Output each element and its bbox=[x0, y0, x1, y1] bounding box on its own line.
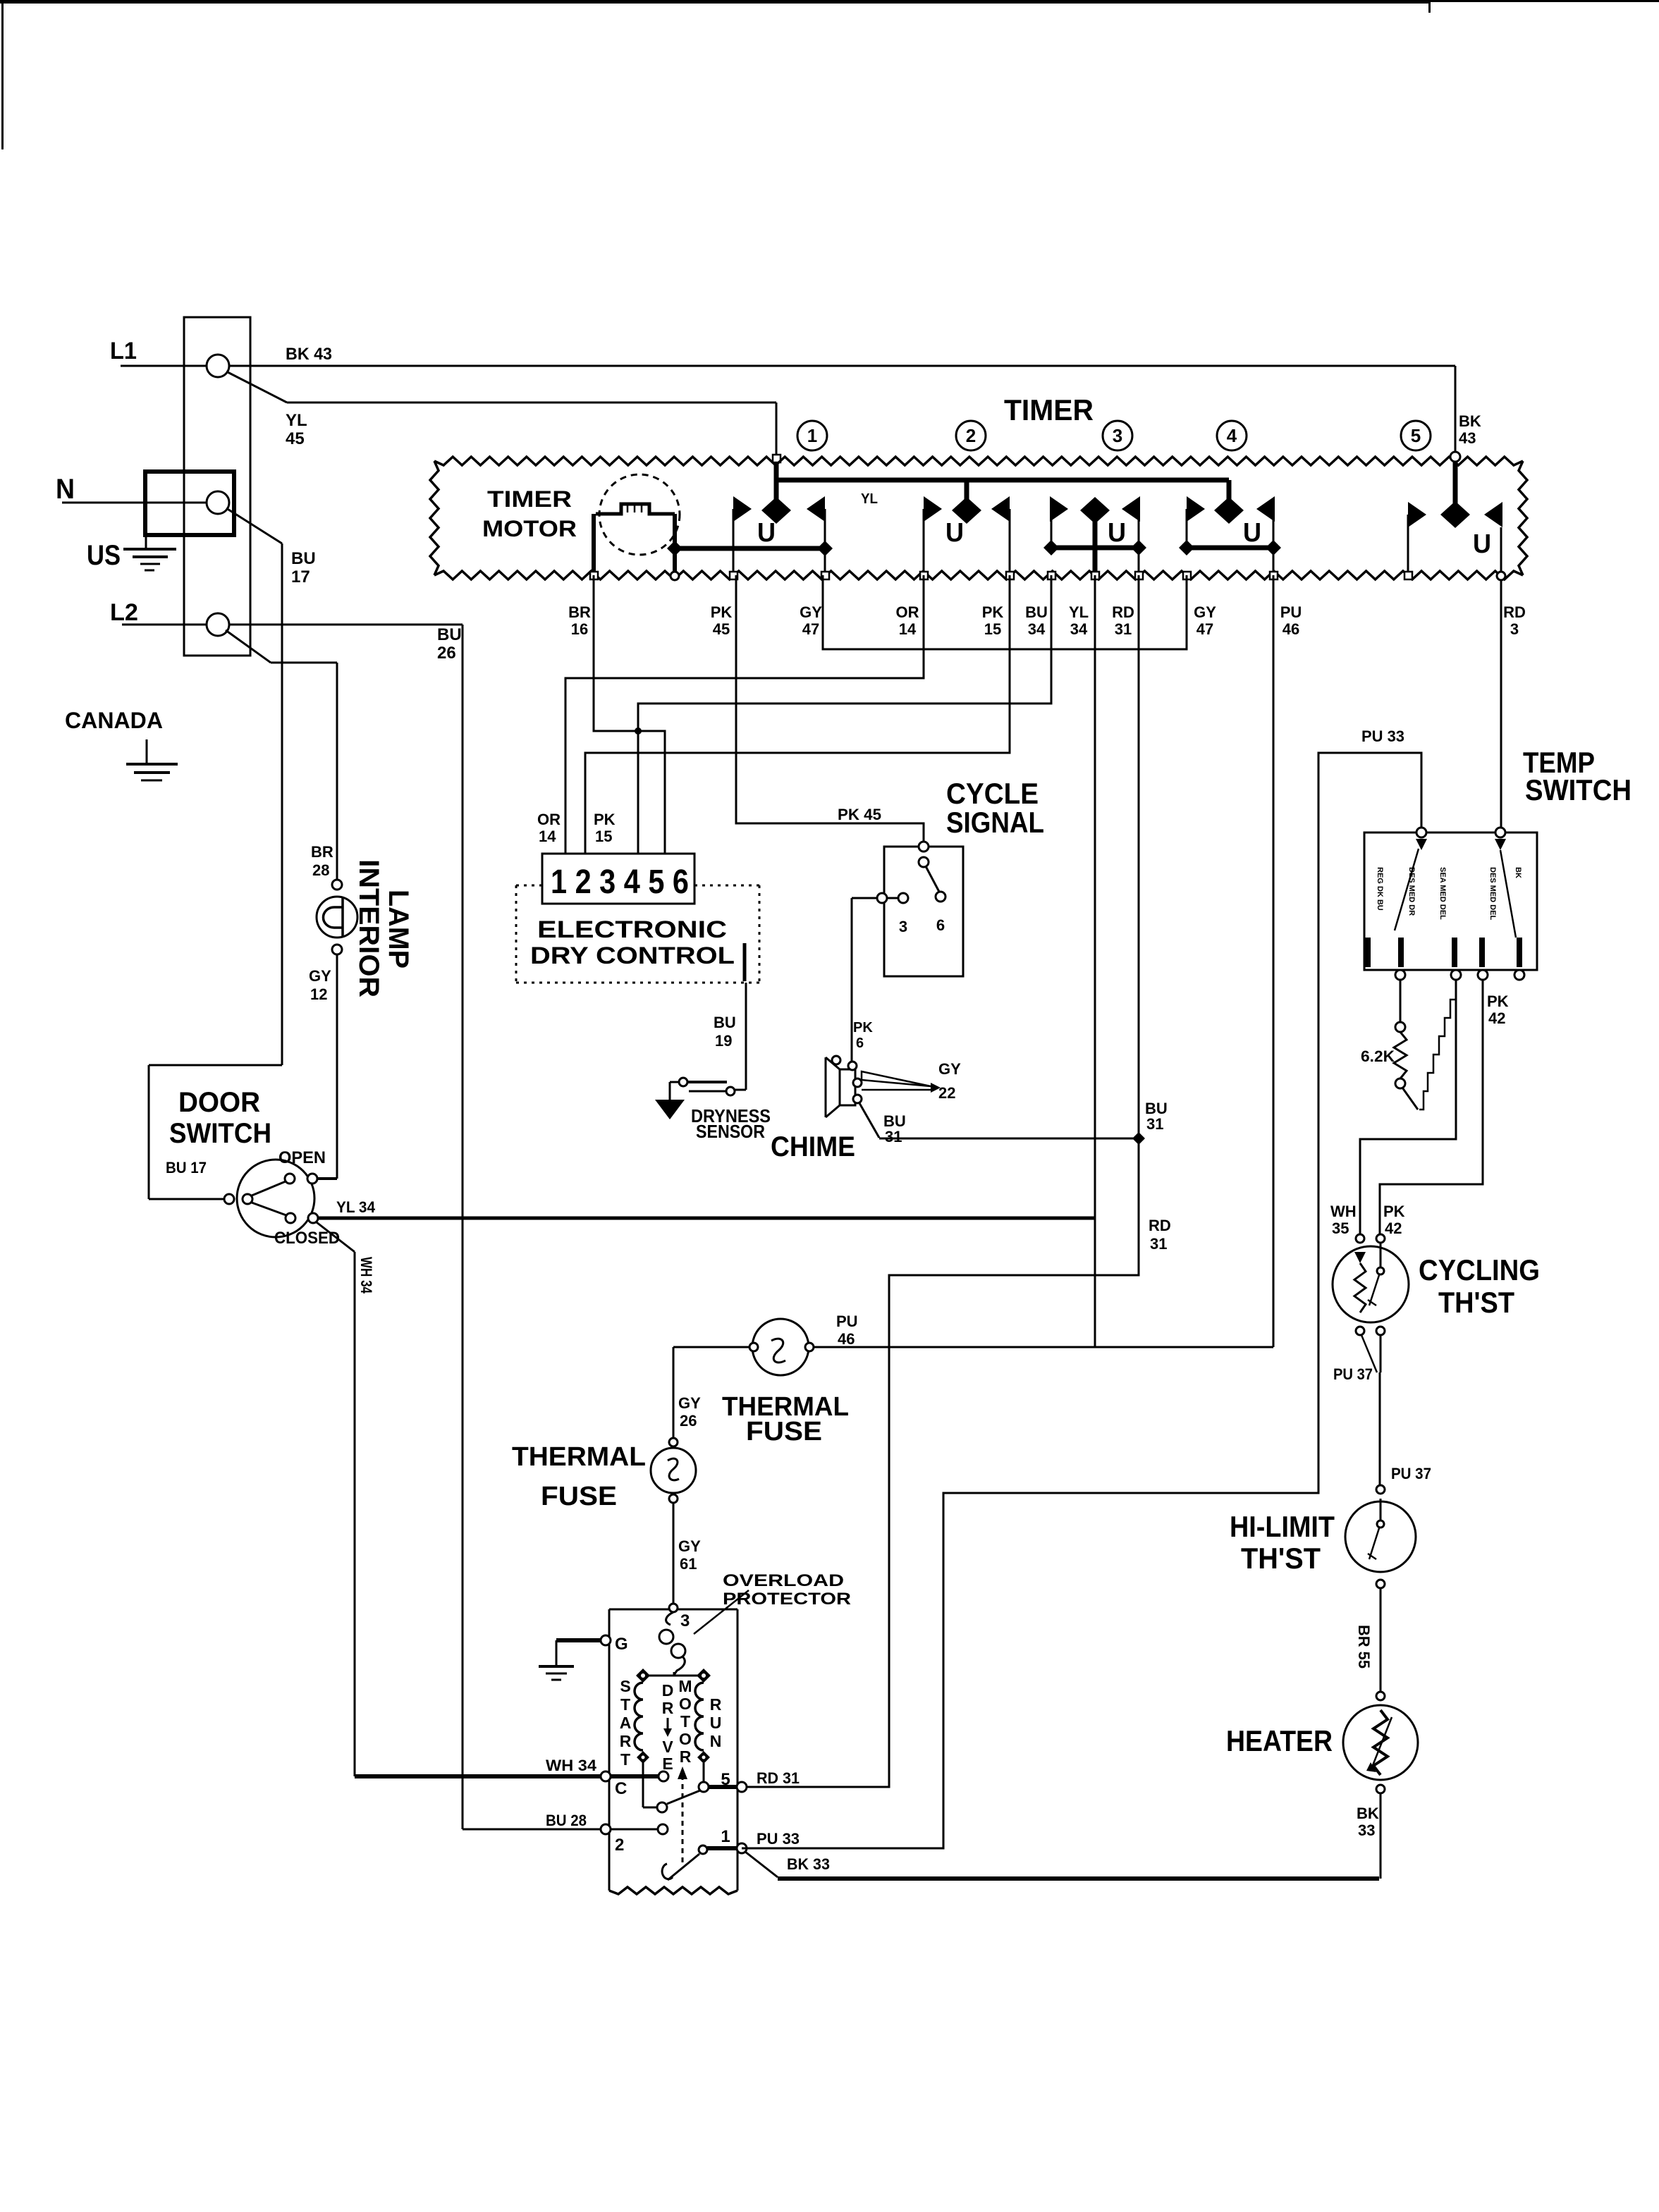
svg-text:33: 33 bbox=[1358, 1821, 1375, 1839]
svg-text:BK 43: BK 43 bbox=[286, 345, 332, 364]
wire BR 28 to lamp bbox=[336, 663, 338, 880]
wire BU 31 diagonal bbox=[859, 1103, 879, 1138]
timer box (sawtooth border) bbox=[434, 457, 1523, 465]
thermal fuse upper bbox=[752, 1319, 809, 1375]
door switch body circle bbox=[237, 1160, 314, 1237]
svg-text:SIGNAL: SIGNAL bbox=[946, 806, 1044, 839]
svg-text:1: 1 bbox=[721, 1827, 730, 1846]
cycle signal switch arm bbox=[926, 866, 939, 892]
timer cam number circle 1 bbox=[797, 421, 827, 450]
junction BU31/RD31 bbox=[1132, 1132, 1145, 1145]
cycling thermostat body bbox=[1333, 1246, 1409, 1322]
svg-text:R: R bbox=[710, 1695, 722, 1714]
timer motor right leg bbox=[673, 514, 677, 575]
svg-text:L2: L2 bbox=[110, 599, 138, 626]
timer terminal x1491 bbox=[1048, 572, 1055, 579]
wire BU 31 to RD31 bbox=[879, 1138, 1134, 1140]
wire BK 33 diagonal bbox=[745, 1852, 778, 1877]
svg-text:C: C bbox=[615, 1779, 627, 1798]
svg-text:2: 2 bbox=[966, 425, 976, 446]
motor terminal 3 bbox=[669, 1604, 678, 1612]
door switch arm to OPEN bbox=[252, 1181, 286, 1196]
svg-text:35: 35 bbox=[1332, 1219, 1349, 1237]
terminal L2 bbox=[207, 613, 229, 636]
motor terminal 5 bbox=[737, 1782, 747, 1792]
svg-text:47: 47 bbox=[1196, 620, 1213, 638]
timer contact 1 feed bbox=[774, 462, 779, 510]
timer terminal x1683 bbox=[1183, 572, 1191, 579]
terminal block N section bbox=[145, 472, 234, 535]
svg-text:BR: BR bbox=[311, 843, 333, 861]
wire BU 17 jog bbox=[149, 1064, 282, 1067]
wire PU 46 horizontal bbox=[814, 1346, 1273, 1348]
svg-text:GY: GY bbox=[678, 1537, 701, 1555]
thermal fuse lower bbox=[651, 1448, 696, 1493]
svg-text:47: 47 bbox=[802, 620, 819, 638]
svg-text:FUSE: FUSE bbox=[541, 1482, 617, 1511]
svg-text:U: U bbox=[1108, 518, 1126, 548]
wire contact to terminal 1 bbox=[707, 1846, 737, 1850]
svg-text:N: N bbox=[710, 1732, 722, 1750]
interior lamp bulb bbox=[317, 897, 357, 938]
wire RD 3 to temp switch bbox=[1500, 580, 1502, 828]
svg-text:WH 34: WH 34 bbox=[357, 1257, 375, 1294]
hi-limit thermostat body bbox=[1345, 1501, 1416, 1572]
cycle signal contact 3 bbox=[898, 893, 908, 903]
svg-text:46: 46 bbox=[1282, 620, 1299, 638]
svg-text:T: T bbox=[680, 1712, 690, 1731]
svg-text:RD 31: RD 31 bbox=[757, 1769, 800, 1787]
timer terminal x1997 bbox=[1404, 572, 1412, 579]
svg-text:CANADA: CANADA bbox=[65, 708, 163, 733]
svg-text:R: R bbox=[620, 1732, 632, 1750]
6.2K resistor bottom terminal bbox=[1395, 1079, 1405, 1088]
timer contact 1 left arrow bbox=[733, 496, 752, 522]
motor box bbox=[609, 1609, 737, 1611]
svg-text:LAMP: LAMP bbox=[383, 890, 414, 969]
svg-text:61: 61 bbox=[680, 1555, 697, 1573]
svg-text:OPEN: OPEN bbox=[278, 1148, 326, 1167]
svg-text:45: 45 bbox=[286, 429, 305, 448]
svg-text:D: D bbox=[662, 1681, 674, 1700]
svg-text:46: 46 bbox=[838, 1330, 855, 1348]
temp switch bottom terminal x1986 bbox=[1395, 970, 1405, 980]
wire WH 35 from temp switch bbox=[1360, 980, 1456, 1234]
temp switch top terminal left bbox=[1416, 828, 1426, 837]
svg-text:WH 34: WH 34 bbox=[546, 1757, 597, 1774]
chime striker GY 22 bbox=[862, 1071, 931, 1086]
motor terminal 1 bbox=[737, 1843, 747, 1853]
timer contact 2 right arrow bbox=[991, 496, 1010, 522]
svg-text:OVERLOAD: OVERLOAD bbox=[723, 1571, 844, 1590]
timer contact 1 right arrow bbox=[807, 496, 825, 522]
wire terminal 2 inside bbox=[611, 1829, 658, 1831]
timer terminal x1615 bbox=[1135, 572, 1143, 579]
cycling th'st switch bbox=[1380, 1243, 1382, 1267]
svg-text:U: U bbox=[1473, 529, 1491, 559]
wire to 6.2K resistor bbox=[1400, 980, 1402, 1022]
svg-text:GY: GY bbox=[800, 603, 822, 621]
timer contact 1 top terminal bbox=[773, 455, 780, 462]
svg-text:BU 17: BU 17 bbox=[166, 1159, 207, 1176]
timer contact 2 diamond bbox=[952, 497, 981, 524]
motor start winding coil bbox=[635, 1683, 643, 1750]
chime terminal top-left bbox=[832, 1056, 840, 1064]
svg-text:43: 43 bbox=[1459, 429, 1476, 447]
timer contact 1 diamond bbox=[761, 497, 791, 524]
svg-text:6: 6 bbox=[856, 1036, 864, 1051]
timer YL bus bbox=[776, 478, 1229, 483]
svg-text:PU 33: PU 33 bbox=[757, 1830, 800, 1848]
svg-text:1 2 3 4 5 6: 1 2 3 4 5 6 bbox=[551, 864, 689, 901]
svg-text:YL: YL bbox=[861, 491, 878, 507]
ground US bbox=[145, 535, 147, 548]
svg-text:WH: WH bbox=[1330, 1203, 1357, 1220]
svg-text:19: 19 bbox=[715, 1032, 732, 1050]
svg-text:34: 34 bbox=[1028, 620, 1046, 638]
wire PU 37 bbox=[1379, 1372, 1381, 1485]
6.2K resistor bbox=[1394, 1032, 1407, 1079]
chime speaker bbox=[840, 1069, 855, 1105]
motor run winding coil bbox=[695, 1683, 704, 1750]
timer terminal x1806 bbox=[1270, 572, 1278, 579]
timer terminal motor right bbox=[671, 572, 679, 580]
svg-text:28: 28 bbox=[312, 861, 329, 879]
svg-text:GY: GY bbox=[938, 1060, 961, 1078]
svg-text:S: S bbox=[620, 1677, 630, 1695]
timer contact 3 bold link bbox=[1043, 540, 1059, 555]
svg-text:TH'ST: TH'ST bbox=[1438, 1286, 1514, 1319]
svg-text:PU 33: PU 33 bbox=[1361, 727, 1404, 745]
wire BK 43 from L1 to timer bbox=[229, 365, 1455, 367]
svg-text:3: 3 bbox=[1510, 620, 1519, 638]
wire from L2 to lamp diagonal bbox=[226, 630, 271, 663]
svg-text:RD: RD bbox=[1503, 603, 1526, 621]
timer contact 2 left arrow bbox=[924, 496, 942, 522]
svg-text:PK: PK bbox=[1383, 1203, 1405, 1220]
timer motor winding bbox=[596, 504, 675, 514]
temp switch sensor arm (staircase) bbox=[1419, 981, 1456, 1110]
svg-text:BK 33: BK 33 bbox=[787, 1855, 830, 1873]
wire GY 47 link bbox=[823, 575, 1187, 649]
lamp bottom terminal bbox=[332, 945, 342, 954]
svg-text:PROTECTOR: PROTECTOR bbox=[723, 1590, 851, 1609]
svg-text:INTERIOR: INTERIOR bbox=[353, 859, 384, 997]
svg-text:PK: PK bbox=[982, 603, 1004, 621]
svg-text:BK: BK bbox=[1514, 867, 1522, 878]
timer motor dashed circle bbox=[599, 474, 680, 555]
wire BK 33 bold bbox=[778, 1876, 1379, 1881]
timer cam number circle 2 bbox=[956, 421, 986, 450]
cycling th'st terminals bottom bbox=[1356, 1327, 1364, 1335]
svg-text:14: 14 bbox=[539, 828, 556, 845]
svg-text:CYCLING: CYCLING bbox=[1419, 1253, 1540, 1286]
svg-text:1: 1 bbox=[807, 425, 817, 446]
timer terminal x1170 bbox=[821, 572, 829, 579]
connector box 1-6 bbox=[542, 854, 694, 904]
svg-text:THERMAL: THERMAL bbox=[512, 1442, 646, 1472]
timer terminal x1553 bbox=[1091, 572, 1099, 579]
timer terminal x1040 bbox=[730, 572, 737, 579]
svg-text:CHIME: CHIME bbox=[771, 1131, 855, 1162]
temp switch pin 5 bbox=[1517, 938, 1522, 967]
timer contact 5 left arrow bbox=[1408, 502, 1426, 527]
svg-text:26: 26 bbox=[680, 1412, 697, 1430]
timer contact 5 right arrow bbox=[1484, 502, 1502, 527]
bold wire motor to contact 1 bbox=[675, 546, 825, 551]
cycle signal switch pivot bbox=[919, 857, 929, 867]
wire PU 46 vertical bbox=[1273, 575, 1275, 1347]
motor terminal C bbox=[601, 1771, 611, 1781]
svg-text:31: 31 bbox=[1146, 1115, 1163, 1133]
svg-text:6.2K: 6.2K bbox=[1361, 1047, 1395, 1065]
motor start contact bbox=[657, 1802, 667, 1812]
svg-text:3: 3 bbox=[899, 918, 907, 935]
wire PK 42 from temp switch bbox=[1380, 980, 1483, 1234]
svg-text:BU: BU bbox=[437, 625, 462, 644]
wire BU 28 horizontal bbox=[463, 1829, 601, 1831]
svg-text:3: 3 bbox=[680, 1611, 690, 1630]
svg-text:SEA MED DEL: SEA MED DEL bbox=[1438, 867, 1447, 920]
heater element bbox=[1373, 1710, 1388, 1775]
svg-text:US: US bbox=[87, 540, 121, 571]
svg-text:4: 4 bbox=[1227, 425, 1237, 446]
motor rotor arrow bbox=[682, 1778, 684, 1862]
chime terminal GY22 bbox=[853, 1079, 862, 1087]
temp switch bottom terminal x2065 bbox=[1451, 970, 1461, 980]
wire OR 14 bbox=[565, 575, 924, 854]
wire to motor terminal 5 bbox=[709, 1785, 737, 1789]
timer terminal x1432 bbox=[1006, 572, 1014, 579]
motor arm hook bbox=[662, 1864, 673, 1879]
svg-text:V: V bbox=[662, 1738, 673, 1756]
temp switch pin 2 bbox=[1398, 938, 1404, 967]
timer cam number circle 3 bbox=[1103, 421, 1132, 450]
ground (motor) bbox=[539, 1665, 574, 1668]
svg-text:12: 12 bbox=[310, 985, 327, 1003]
motor centrifugal arm upper bbox=[667, 1790, 700, 1804]
dryness sensor lower electrode bbox=[689, 1090, 726, 1093]
timer contact 4 left arrow bbox=[1187, 496, 1205, 522]
svg-text:GY: GY bbox=[678, 1394, 701, 1412]
svg-text:SENSOR: SENSOR bbox=[696, 1121, 765, 1142]
wire PK 15 bbox=[585, 575, 1010, 854]
wire BU 34 bbox=[638, 575, 1051, 854]
hi-limit top terminal bbox=[1376, 1485, 1385, 1494]
svg-text:15: 15 bbox=[595, 828, 612, 845]
wire RD 31 bbox=[742, 575, 1139, 1787]
lamp top terminal bbox=[332, 880, 342, 890]
wire BK 33 from heater bbox=[1380, 1793, 1382, 1879]
heater top terminal bbox=[1376, 1692, 1385, 1700]
svg-text:5: 5 bbox=[1411, 425, 1421, 446]
chime terminal PK6 bbox=[848, 1062, 857, 1070]
wire GY 26 bbox=[673, 1347, 675, 1438]
timer contact 4 bold link bbox=[1179, 540, 1194, 555]
temp switch right arm bbox=[1495, 839, 1506, 850]
timer contact 1 right junction bbox=[817, 541, 833, 556]
svg-text:ELECTRONIC: ELECTRONIC bbox=[537, 916, 727, 943]
dryness sensor upper electrode bbox=[682, 1081, 727, 1083]
svg-text:DES MED DR: DES MED DR bbox=[1407, 867, 1416, 916]
wire BU 17 vertical bbox=[281, 543, 283, 1065]
motor winding top bus bbox=[643, 1675, 704, 1677]
wire YL 45 bbox=[287, 402, 776, 404]
motor junction 5 bbox=[699, 1782, 709, 1792]
svg-text:BR: BR bbox=[568, 603, 591, 621]
svg-text:BK: BK bbox=[1357, 1805, 1379, 1822]
svg-text:YL: YL bbox=[1069, 603, 1089, 621]
door switch CLOSED contacts bbox=[286, 1213, 295, 1223]
svg-text:OR: OR bbox=[896, 603, 919, 621]
svg-text:R: R bbox=[680, 1747, 692, 1766]
temp switch top terminal right bbox=[1495, 828, 1505, 837]
svg-text:GY: GY bbox=[1194, 603, 1216, 621]
svg-text:31: 31 bbox=[1150, 1235, 1167, 1253]
wire YL 34 door switch to timer bbox=[318, 1217, 1095, 1220]
svg-text:PK: PK bbox=[853, 1020, 873, 1036]
wire BU 19 bbox=[745, 983, 747, 1090]
wire L1 lead bbox=[121, 365, 207, 367]
svg-text:14: 14 bbox=[899, 620, 917, 638]
motor switch contact 1 side bbox=[699, 1845, 707, 1854]
svg-text:31: 31 bbox=[1115, 620, 1132, 638]
wire PK 45 bbox=[736, 575, 924, 842]
svg-text:SWITCH: SWITCH bbox=[1525, 773, 1632, 806]
svg-text:YL: YL bbox=[286, 411, 307, 430]
svg-text:R: R bbox=[662, 1699, 674, 1717]
overload callout line bbox=[694, 1590, 749, 1634]
svg-text:U: U bbox=[945, 518, 964, 548]
wire BR 55 bbox=[1380, 1588, 1382, 1692]
timer contact 5 feed bbox=[1453, 462, 1458, 515]
svg-text:TH'ST: TH'ST bbox=[1241, 1542, 1321, 1575]
timer terminal x1310 bbox=[920, 572, 928, 579]
motor terminal 2 bbox=[601, 1824, 611, 1834]
motor inner 2 end bbox=[658, 1824, 668, 1834]
wire resistor to V point bbox=[1402, 1088, 1418, 1110]
overload protector bbox=[666, 1612, 673, 1625]
wire N lead bbox=[62, 502, 207, 504]
temp switch bottom terminal x2155 bbox=[1514, 970, 1524, 980]
svg-text:OR: OR bbox=[537, 811, 561, 828]
terminal block bbox=[184, 317, 250, 656]
wire L2 lead bbox=[122, 624, 207, 626]
wire BU 17 diagonal from N bbox=[226, 508, 282, 543]
heater bottom terminal bbox=[1376, 1785, 1385, 1793]
svg-text:TIMER: TIMER bbox=[1004, 393, 1094, 426]
door switch arm to CLOSED bbox=[252, 1203, 286, 1215]
timer contact 5 diamond bbox=[1440, 501, 1470, 528]
svg-text:6: 6 bbox=[936, 916, 945, 934]
svg-text:BU: BU bbox=[291, 549, 316, 568]
wire PK 6 bbox=[852, 897, 877, 899]
svg-text:T: T bbox=[620, 1750, 630, 1769]
dry control bracket bbox=[743, 943, 747, 981]
timer cam number circle 5 bbox=[1401, 421, 1431, 450]
svg-text:RD: RD bbox=[1112, 603, 1134, 621]
svg-text:PU: PU bbox=[1280, 603, 1302, 621]
temp switch left arm bbox=[1416, 839, 1427, 850]
motor centrifugal arm lower bbox=[668, 1854, 699, 1880]
wire BU 26 from L2 bbox=[229, 624, 463, 626]
svg-text:16: 16 bbox=[571, 620, 588, 638]
timer contact 5 top terminal bbox=[1450, 452, 1460, 462]
svg-text:DRY CONTROL: DRY CONTROL bbox=[530, 942, 735, 969]
wire WH 34 diagonal bbox=[317, 1222, 355, 1252]
terminal L1 bbox=[207, 355, 229, 377]
cycling th'st terminals top bbox=[1356, 1234, 1364, 1243]
dry control dashed box bbox=[516, 885, 542, 887]
page frame top bar bbox=[0, 0, 1430, 4]
cycle signal box bbox=[884, 847, 963, 976]
cycle signal top terminal bbox=[919, 842, 929, 852]
svg-text:PU: PU bbox=[836, 1313, 858, 1330]
svg-text:PK 45: PK 45 bbox=[838, 806, 881, 823]
wire run winding to term 5 bbox=[703, 1763, 705, 1782]
motor inner C end bbox=[659, 1771, 668, 1781]
svg-text:26: 26 bbox=[437, 644, 456, 663]
svg-text:34: 34 bbox=[1070, 620, 1088, 638]
junction timer motor to contact bus bbox=[667, 541, 682, 556]
svg-text:45: 45 bbox=[713, 620, 730, 638]
junction BR10/BU34 cross dot bbox=[635, 727, 642, 735]
hi-limit switch bbox=[1380, 1499, 1382, 1520]
timer contact 3 left arrow bbox=[1050, 496, 1068, 522]
svg-text:G: G bbox=[615, 1635, 628, 1654]
hi-limit bottom terminal bbox=[1376, 1580, 1385, 1588]
svg-text:T: T bbox=[620, 1695, 630, 1714]
motor terminal G bbox=[601, 1635, 611, 1645]
timer terminal RD3 bbox=[1497, 572, 1505, 580]
dryness sensor ground bbox=[655, 1100, 685, 1119]
svg-text:15: 15 bbox=[984, 620, 1001, 638]
svg-text:E: E bbox=[662, 1755, 673, 1773]
timer contact 4 diamond bbox=[1214, 497, 1244, 524]
svg-text:U: U bbox=[757, 518, 776, 548]
svg-text:O: O bbox=[679, 1730, 692, 1748]
page frame left line bbox=[1, 0, 4, 149]
svg-text:TIMER: TIMER bbox=[487, 486, 572, 512]
svg-text:BU: BU bbox=[1025, 603, 1048, 621]
svg-text:M: M bbox=[678, 1677, 692, 1695]
wire GY 12 from lamp bbox=[336, 954, 338, 1179]
temp switch pin 4 bbox=[1479, 938, 1485, 967]
svg-text:DOOR: DOOR bbox=[178, 1087, 260, 1118]
terminal N bbox=[207, 491, 229, 514]
temp switch box bbox=[1364, 832, 1537, 970]
timer contact 3 diamond bbox=[1080, 497, 1110, 524]
svg-text:MOTOR: MOTOR bbox=[482, 516, 577, 541]
svg-text:BU: BU bbox=[714, 1014, 736, 1031]
svg-text:HI-LIMIT: HI-LIMIT bbox=[1230, 1510, 1335, 1543]
svg-text:U: U bbox=[1243, 518, 1261, 548]
svg-text:FUSE: FUSE bbox=[746, 1417, 822, 1446]
timer terminal x842 bbox=[590, 572, 598, 579]
svg-text:22: 22 bbox=[938, 1084, 955, 1102]
wire start winding bottom bbox=[642, 1762, 644, 1807]
svg-text:31: 31 bbox=[885, 1128, 902, 1145]
wire PU 33 route bbox=[742, 753, 1421, 1848]
wire PU 37 merge bbox=[1361, 1335, 1377, 1372]
wire motor ground bbox=[556, 1638, 600, 1642]
svg-text:U: U bbox=[710, 1714, 722, 1732]
wire lamp to open contact bbox=[317, 1177, 337, 1180]
timer motor left leg BR10 bbox=[592, 514, 596, 575]
svg-text:RD: RD bbox=[1149, 1217, 1171, 1234]
svg-text:N: N bbox=[56, 474, 75, 505]
svg-text:CYCLE: CYCLE bbox=[946, 777, 1039, 810]
